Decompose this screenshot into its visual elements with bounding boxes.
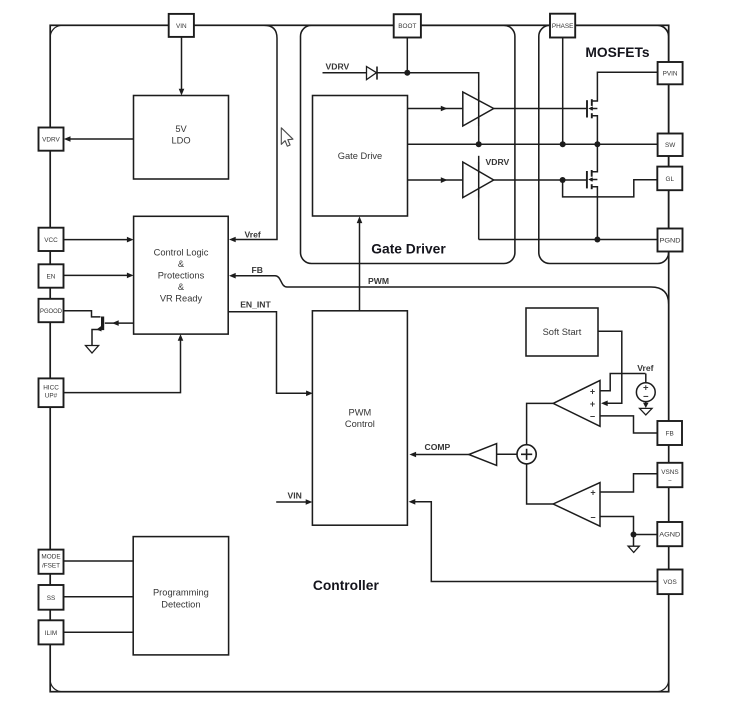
svg-text:VDRV: VDRV: [42, 137, 60, 144]
svg-text:5V: 5V: [175, 124, 187, 134]
svg-text:Soft Start: Soft Start: [543, 327, 582, 337]
svg-text:−: −: [668, 478, 672, 485]
svg-text:BOOT: BOOT: [398, 23, 416, 30]
svg-text:VOS: VOS: [663, 579, 677, 586]
svg-text:COMP: COMP: [425, 442, 451, 452]
svg-text:FB: FB: [252, 265, 263, 275]
svg-text:AGND: AGND: [659, 532, 680, 539]
svg-text:Controller: Controller: [313, 578, 380, 593]
svg-text:PGND: PGND: [660, 238, 681, 245]
svg-text:Vref: Vref: [637, 363, 653, 373]
svg-text:MOSFETs: MOSFETs: [585, 45, 649, 60]
svg-text:VDRV: VDRV: [326, 62, 350, 72]
svg-text:GL: GL: [666, 176, 675, 183]
svg-text:HICC: HICC: [43, 385, 59, 392]
svg-text:SW: SW: [665, 142, 676, 149]
svg-text:Control: Control: [345, 419, 375, 429]
svg-text:PWM: PWM: [349, 407, 372, 417]
svg-text:/FSET: /FSET: [42, 563, 60, 570]
svg-text:UP#: UP#: [45, 393, 58, 400]
svg-text:LDO: LDO: [171, 136, 190, 146]
svg-text:EN_INT: EN_INT: [240, 300, 271, 310]
svg-text:PGOOD: PGOOD: [40, 308, 62, 315]
svg-text:VCC: VCC: [44, 237, 58, 244]
svg-text:VSNS: VSNS: [661, 469, 678, 476]
svg-text:VDRV: VDRV: [486, 157, 510, 167]
svg-text:+: +: [590, 399, 595, 409]
svg-text:&: &: [178, 259, 185, 269]
svg-text:Protections: Protections: [158, 271, 205, 281]
svg-text:VIN: VIN: [288, 490, 302, 500]
svg-text:Vref: Vref: [245, 229, 261, 239]
svg-text:+: +: [590, 386, 595, 396]
svg-text:FB: FB: [666, 431, 674, 438]
svg-text:PHASE: PHASE: [552, 23, 574, 30]
svg-text:VR Ready: VR Ready: [160, 294, 203, 304]
svg-text:+: +: [590, 488, 595, 498]
svg-text:EN: EN: [47, 273, 56, 280]
svg-text:−: −: [590, 512, 595, 522]
svg-text:Gate Driver: Gate Driver: [371, 241, 446, 256]
svg-text:Control Logic: Control Logic: [154, 247, 209, 257]
svg-text:SS: SS: [47, 595, 56, 602]
svg-text:VIN: VIN: [176, 23, 187, 30]
svg-text:PWM: PWM: [368, 276, 389, 286]
svg-text:MODE: MODE: [41, 554, 60, 561]
svg-text:PVIN: PVIN: [663, 71, 678, 78]
svg-text:−: −: [590, 412, 595, 422]
svg-text:Programming: Programming: [153, 588, 209, 598]
svg-text:&: &: [178, 282, 185, 292]
svg-text:−: −: [643, 392, 649, 403]
svg-text:ILIM: ILIM: [45, 630, 57, 637]
svg-text:Gate Drive: Gate Drive: [338, 151, 382, 161]
svg-text:Detection: Detection: [161, 599, 200, 609]
